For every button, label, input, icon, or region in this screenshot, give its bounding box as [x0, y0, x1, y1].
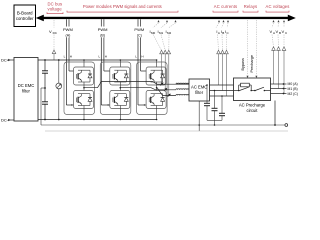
svg-text:V: V — [49, 29, 52, 34]
svg-text:DC EMC: DC EMC — [18, 83, 35, 88]
svg-text:Power modules PWM signals and: Power modules PWM signals and currents — [83, 4, 162, 9]
svg-text:Relays: Relays — [244, 4, 258, 9]
svg-text:M0: M0 — [151, 31, 155, 35]
svg-text:Bypass: Bypass — [241, 58, 245, 71]
svg-text:filter: filter — [22, 89, 31, 94]
svg-text:PWM: PWM — [63, 27, 73, 32]
svg-text:M1 (B): M1 (B) — [288, 87, 298, 91]
svg-text:filter: filter — [195, 90, 204, 95]
svg-text:(C): (C) — [137, 34, 142, 38]
svg-text:AC currents: AC currents — [214, 4, 237, 9]
svg-text:PWM: PWM — [98, 27, 108, 32]
svg-text:A: A — [218, 31, 220, 35]
svg-text:AC EMC: AC EMC — [191, 85, 207, 90]
svg-text:circuit: circuit — [247, 108, 259, 113]
svg-text:M2 (C): M2 (C) — [288, 92, 298, 96]
svg-text:M1: M1 — [159, 31, 163, 35]
svg-text:B-Board: B-Board — [17, 10, 33, 15]
svg-text:AC Precharge: AC Precharge — [239, 103, 266, 108]
svg-text:PWM: PWM — [134, 27, 144, 32]
svg-text:B: B — [222, 31, 224, 35]
svg-text:(A): (A) — [66, 34, 71, 38]
svg-text:H: H — [105, 55, 107, 59]
svg-text:AC voltages: AC voltages — [266, 4, 290, 9]
svg-text:voltage: voltage — [48, 7, 63, 12]
svg-text:(B): (B) — [100, 34, 105, 38]
svg-text:controller: controller — [16, 16, 34, 21]
svg-text:H: H — [141, 55, 143, 59]
svg-text:M0 (A): M0 (A) — [288, 82, 298, 86]
svg-text:H: H — [70, 55, 72, 59]
svg-text:M2: M2 — [167, 31, 171, 35]
svg-text:Precharge: Precharge — [250, 55, 254, 73]
